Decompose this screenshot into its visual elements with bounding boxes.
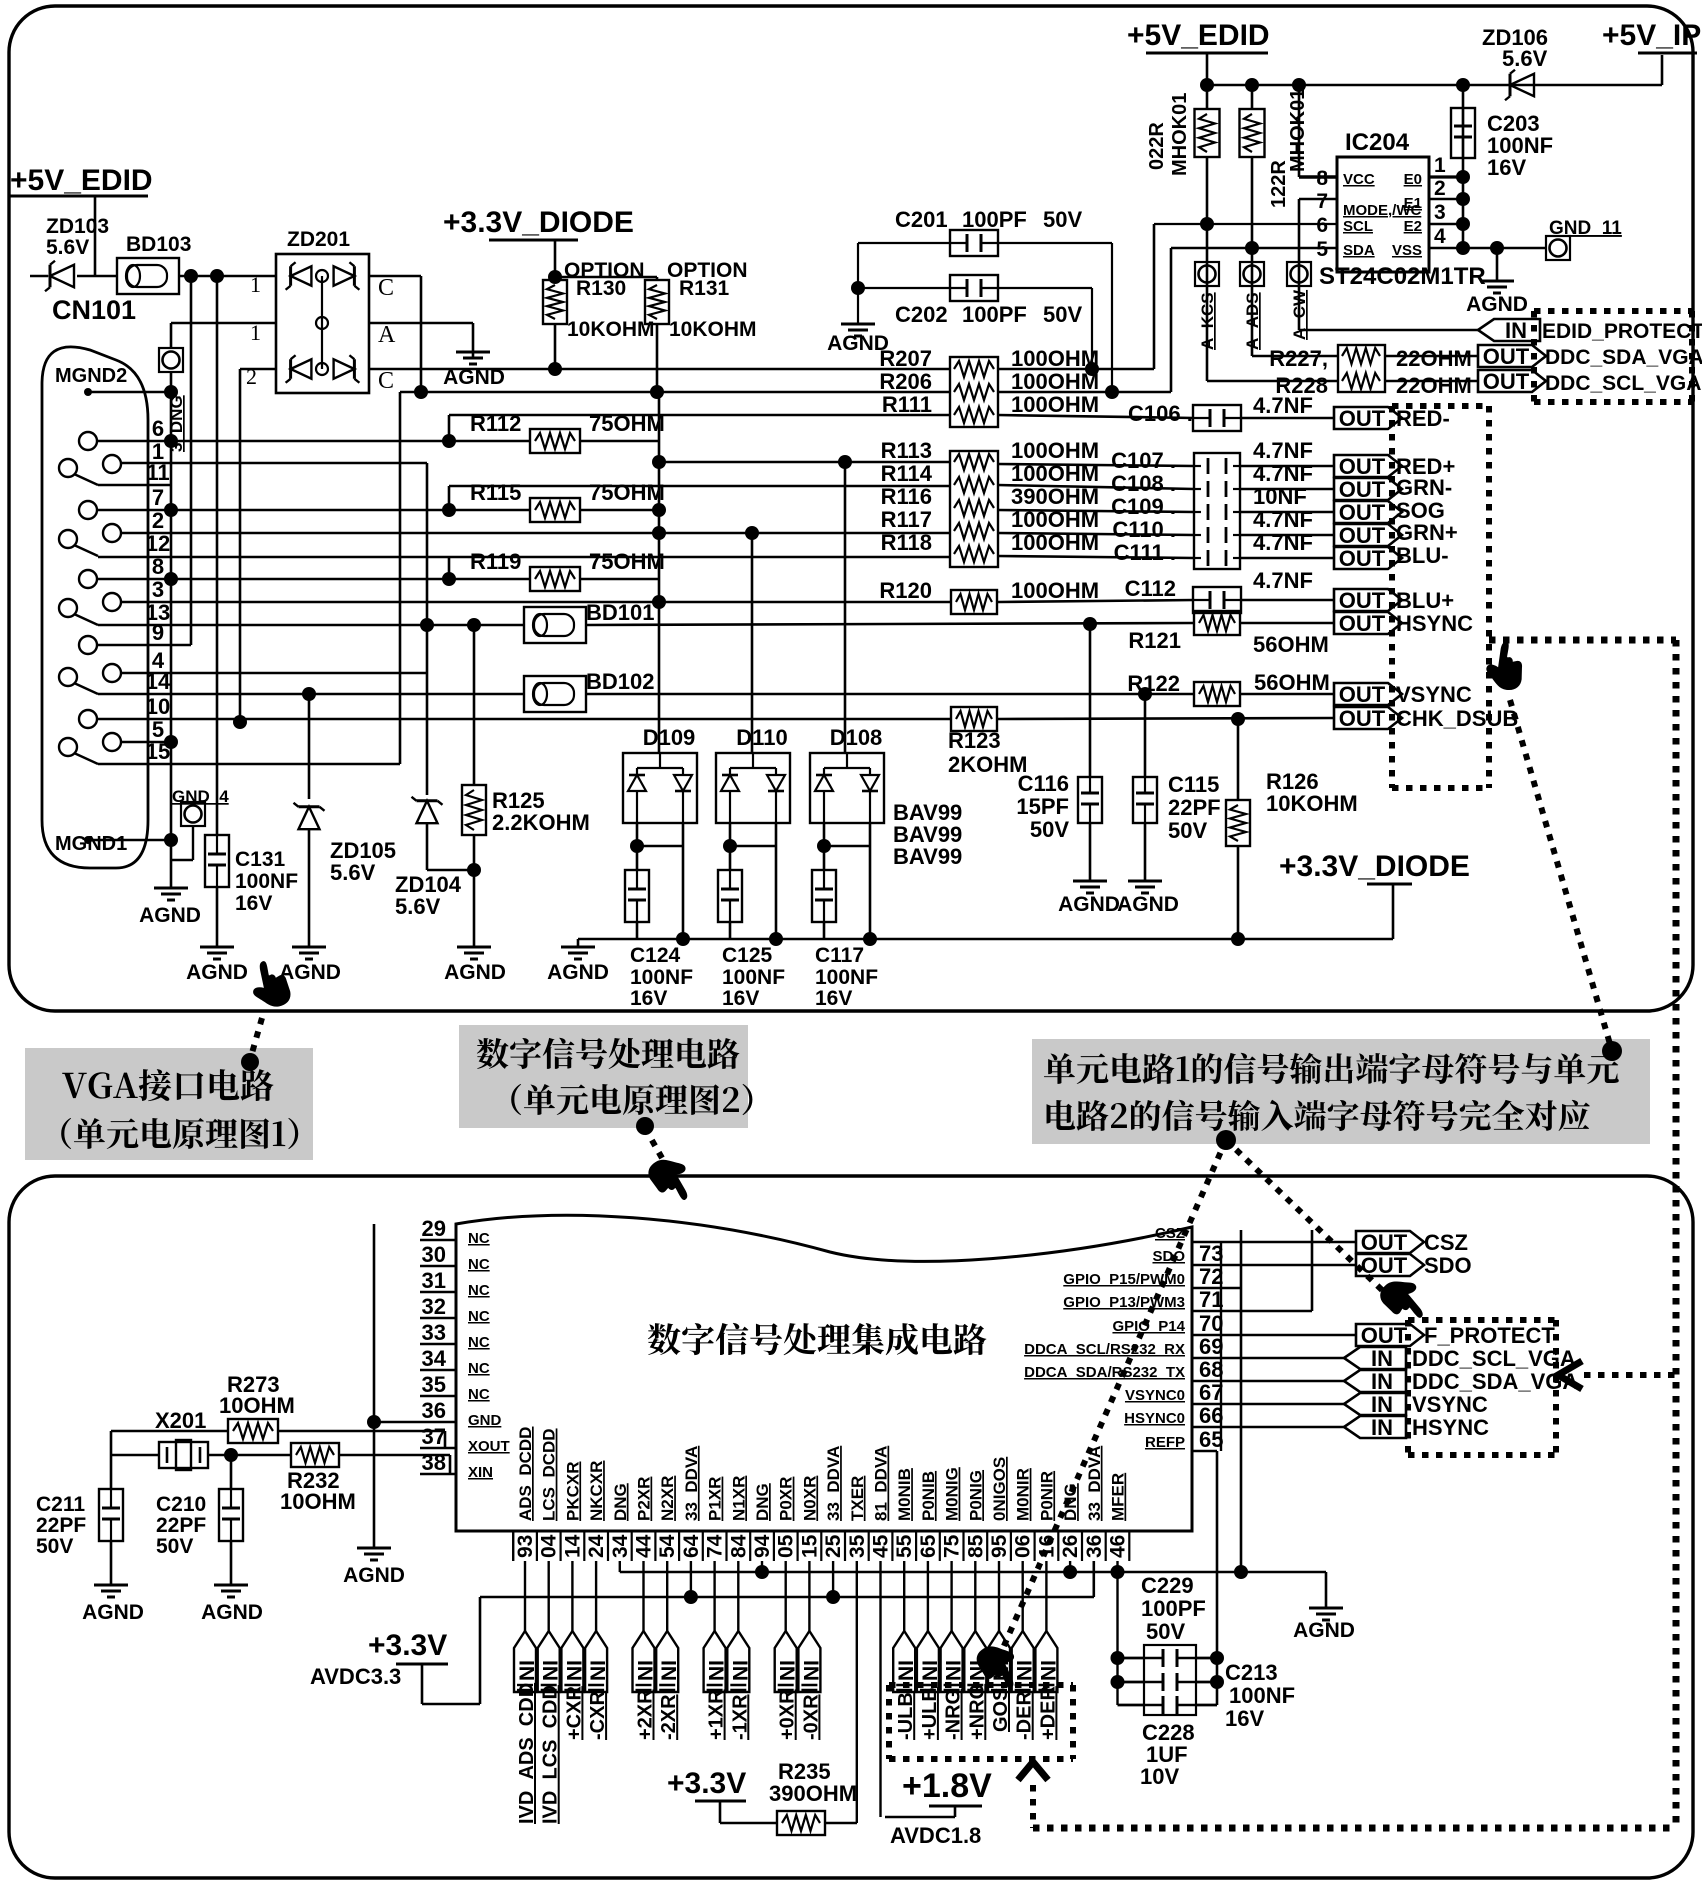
svg-text:10KOHM: 10KOHM <box>1266 791 1358 816</box>
svg-text:AGND: AGND <box>139 904 201 927</box>
svg-text:10OHM: 10OHM <box>280 1489 356 1514</box>
svg-text:+5V_EDID: +5V_EDID <box>10 164 153 197</box>
svg-text:OUT: OUT <box>1339 682 1386 707</box>
svg-text:DDC_SCL_VGA: DDC_SCL_VGA <box>1412 1346 1576 1371</box>
svg-text:DDCA_SDA/RS232_TX: DDCA_SDA/RS232_TX <box>1024 1364 1185 1381</box>
svg-text:C131: C131 <box>235 848 286 871</box>
svg-text:AGND: AGND <box>1058 893 1120 916</box>
svg-text:+1.8V: +1.8V <box>902 1767 992 1805</box>
svg-text:R130: R130 <box>576 277 626 300</box>
svg-text:NI: NI <box>658 1660 681 1681</box>
svg-text:HSYNC: HSYNC <box>1396 611 1473 636</box>
svg-text:+3.3V: +3.3V <box>667 1767 746 1800</box>
svg-text:+2XR: +2XR <box>635 1689 657 1740</box>
svg-text:75OHM: 75OHM <box>589 411 665 436</box>
svg-text:12: 12 <box>146 531 170 556</box>
svg-text:GPIO_P13/PWM3: GPIO_P13/PWM3 <box>1063 1294 1185 1311</box>
svg-text:GRN-: GRN- <box>1396 475 1452 500</box>
svg-text:IN: IN <box>1371 1415 1393 1440</box>
svg-text:50V: 50V <box>1168 818 1207 843</box>
svg-text:BD102: BD102 <box>586 669 654 694</box>
svg-text:F_PROTECT: F_PROTECT <box>1424 1323 1555 1348</box>
svg-text:56OHM: 56OHM <box>1254 670 1330 695</box>
svg-text:16V: 16V <box>1487 155 1526 180</box>
svg-text:-2XR: -2XR <box>658 1694 680 1740</box>
svg-text:C117: C117 <box>815 944 864 967</box>
svg-text:35: 35 <box>422 1372 446 1397</box>
svg-text:65: 65 <box>1199 1427 1223 1452</box>
svg-text:33: 33 <box>422 1320 446 1345</box>
svg-text:NI: NI <box>1014 1660 1037 1681</box>
svg-text:NI: NI <box>706 1660 729 1681</box>
svg-text:C125: C125 <box>722 944 773 967</box>
svg-text:NC: NC <box>468 1282 490 1299</box>
svg-text:P1XR: P1XR <box>706 1477 725 1521</box>
svg-text:74: 74 <box>704 1534 727 1558</box>
svg-text:CSZ: CSZ <box>1155 1225 1185 1242</box>
svg-text:94: 94 <box>751 1534 774 1558</box>
svg-text:7: 7 <box>1316 190 1328 213</box>
svg-text:N2XR: N2XR <box>658 1476 677 1521</box>
svg-text:93: 93 <box>514 1535 537 1558</box>
svg-text:C106 .: C106 . <box>1128 401 1193 426</box>
svg-text:+ULB: +ULB <box>919 1687 941 1740</box>
svg-text:16V: 16V <box>722 987 759 1010</box>
svg-text:C108 .: C108 . <box>1111 471 1176 496</box>
svg-text:GND_11: GND_11 <box>1549 218 1622 239</box>
svg-text:50V: 50V <box>36 1535 73 1558</box>
svg-text:+NRG: +NRG <box>966 1684 988 1740</box>
svg-text:OUT: OUT <box>1339 523 1386 548</box>
svg-text:AGND: AGND <box>547 961 609 984</box>
svg-text:34: 34 <box>422 1346 447 1371</box>
svg-text:75: 75 <box>941 1534 964 1558</box>
svg-text:C201: C201 <box>895 207 948 232</box>
svg-text:100PF: 100PF <box>1141 1596 1206 1621</box>
svg-text:-NRG: -NRG <box>943 1689 965 1740</box>
svg-text:45: 45 <box>870 1534 893 1558</box>
svg-text:C109 .: C109 . <box>1111 494 1176 519</box>
svg-text:PKCXR: PKCXR <box>563 1461 582 1521</box>
svg-text:5.6V: 5.6V <box>395 894 441 919</box>
svg-text:68: 68 <box>1199 1357 1223 1382</box>
svg-text:R123: R123 <box>948 728 1001 753</box>
svg-text:24: 24 <box>585 1534 608 1558</box>
svg-text:100OHM: 100OHM <box>1011 578 1099 603</box>
svg-text:22PF: 22PF <box>36 1514 86 1537</box>
svg-text:022R: 022R <box>1146 122 1168 170</box>
svg-text:36: 36 <box>1083 1535 1106 1558</box>
svg-text:100NF: 100NF <box>630 966 693 989</box>
svg-text:R112: R112 <box>470 411 521 436</box>
svg-text:R119: R119 <box>470 549 521 574</box>
svg-text:15PF: 15PF <box>1016 794 1069 819</box>
svg-text:1: 1 <box>1434 154 1446 177</box>
svg-text:R207: R207 <box>879 346 932 371</box>
svg-text:6: 6 <box>1316 214 1328 237</box>
svg-text:A_CW: A_CW <box>1290 289 1309 340</box>
svg-text:R131: R131 <box>679 277 730 300</box>
svg-text:X201: X201 <box>155 1408 206 1433</box>
svg-text:AGND: AGND <box>186 961 248 984</box>
svg-text:NKCXR: NKCXR <box>587 1461 606 1521</box>
svg-text:OUT: OUT <box>1483 344 1530 369</box>
svg-text:-CXR: -CXR <box>587 1691 609 1740</box>
svg-text:LCS_DCDD: LCS_DCDD <box>540 1428 559 1521</box>
svg-text:R117: R117 <box>881 507 932 532</box>
svg-text:C107 .: C107 . <box>1111 448 1176 473</box>
svg-text:26: 26 <box>1059 1535 1082 1558</box>
svg-text:CN101: CN101 <box>52 295 136 325</box>
svg-text:-ULB: -ULB <box>895 1692 917 1740</box>
svg-text:AVDC3.3: AVDC3.3 <box>310 1664 401 1689</box>
svg-text:100NF: 100NF <box>815 966 878 989</box>
svg-text:+0XR: +0XR <box>777 1689 799 1740</box>
svg-text:ST24C02M1TR: ST24C02M1TR <box>1319 263 1486 290</box>
svg-text:AGND: AGND <box>343 1564 405 1587</box>
svg-text:100NF: 100NF <box>722 966 785 989</box>
svg-text:16V: 16V <box>1225 1706 1264 1731</box>
svg-text:GRN+: GRN+ <box>1396 520 1458 545</box>
svg-text:10: 10 <box>146 694 170 719</box>
svg-text:MGND1: MGND1 <box>55 833 127 855</box>
svg-text:2KOHM: 2KOHM <box>948 752 1027 777</box>
svg-text:SCL: SCL <box>1343 218 1373 235</box>
svg-text:3: 3 <box>1434 201 1446 224</box>
svg-text:D110: D110 <box>736 725 787 750</box>
svg-text:NC: NC <box>468 1360 490 1377</box>
svg-text:C110 .: C110 . <box>1112 517 1176 542</box>
svg-text:10V: 10V <box>1140 1764 1179 1789</box>
svg-text:56OHM: 56OHM <box>1253 632 1329 657</box>
svg-text:-1XR: -1XR <box>729 1694 751 1740</box>
svg-text:73: 73 <box>1199 1241 1223 1266</box>
svg-text:10KOHM: 10KOHM <box>567 318 655 341</box>
svg-text:06: 06 <box>1012 1535 1035 1558</box>
svg-text:IN: IN <box>1371 1369 1393 1394</box>
svg-text:54: 54 <box>656 1534 679 1558</box>
svg-text:A: A <box>378 322 396 348</box>
svg-text:69: 69 <box>1199 1334 1223 1359</box>
svg-text:MHOK01: MHOK01 <box>1169 93 1191 176</box>
svg-text:OUT: OUT <box>1339 454 1386 479</box>
svg-text:10OHM: 10OHM <box>219 1393 295 1418</box>
svg-text:R121: R121 <box>1128 628 1181 653</box>
svg-text:75OHM: 75OHM <box>589 480 665 505</box>
svg-text:OUT: OUT <box>1339 406 1386 431</box>
svg-text:37: 37 <box>422 1424 446 1449</box>
svg-text:2.2KOHM: 2.2KOHM <box>492 810 590 835</box>
svg-text:85: 85 <box>964 1534 987 1558</box>
svg-text:OUT: OUT <box>1483 369 1530 394</box>
svg-text:VSYNC: VSYNC <box>1412 1392 1488 1417</box>
svg-text:46: 46 <box>1107 1535 1130 1558</box>
svg-text:2: 2 <box>152 508 164 533</box>
svg-text:C229: C229 <box>1141 1573 1194 1598</box>
svg-text:+3.3V_DIODE: +3.3V_DIODE <box>443 206 634 239</box>
svg-text:NI: NI <box>777 1660 800 1681</box>
svg-text:100PF: 100PF <box>962 302 1027 327</box>
svg-text:NI: NI <box>919 1660 942 1681</box>
svg-text:NI: NI <box>1037 1660 1060 1681</box>
svg-text:NI: NI <box>943 1660 966 1681</box>
svg-text:70: 70 <box>1199 1311 1223 1336</box>
svg-text:P2XR: P2XR <box>635 1477 654 1521</box>
svg-text:SDA: SDA <box>1343 242 1375 259</box>
svg-text:25: 25 <box>822 1534 845 1558</box>
svg-text:IVD_ADS_CDD: IVD_ADS_CDD <box>516 1683 538 1824</box>
svg-text:N1XR: N1XR <box>729 1476 748 1521</box>
svg-text:04: 04 <box>538 1534 561 1558</box>
svg-text:AGND: AGND <box>1117 893 1179 916</box>
svg-text:5.6V: 5.6V <box>46 236 89 259</box>
svg-text:GPIO_P14: GPIO_P14 <box>1112 1318 1185 1335</box>
svg-text:8: 8 <box>1316 167 1328 190</box>
svg-text:M0NIR: M0NIR <box>1014 1468 1033 1521</box>
svg-text:+5V_EDID: +5V_EDID <box>1127 19 1270 52</box>
svg-text:IN: IN <box>1371 1346 1393 1371</box>
svg-text:4.7NF: 4.7NF <box>1253 568 1313 593</box>
svg-text:100NF: 100NF <box>1229 1683 1295 1708</box>
svg-text:44: 44 <box>633 1534 656 1558</box>
svg-text:DDC_SDA_VGA: DDC_SDA_VGA <box>1545 346 1702 369</box>
svg-text:OUT: OUT <box>1339 706 1386 731</box>
svg-text:50V: 50V <box>1146 1619 1185 1644</box>
svg-text:95: 95 <box>988 1534 1011 1558</box>
svg-text:10NF: 10NF <box>1253 484 1307 509</box>
svg-text:72: 72 <box>1199 1264 1223 1289</box>
svg-text:16V: 16V <box>235 892 272 915</box>
svg-text:OUT: OUT <box>1361 1230 1408 1255</box>
svg-text:SDO: SDO <box>1424 1253 1472 1278</box>
svg-text:AGND: AGND <box>1466 293 1528 316</box>
svg-text:R114: R114 <box>881 461 933 486</box>
svg-text:R118: R118 <box>881 530 932 555</box>
svg-text:1: 1 <box>250 272 261 297</box>
svg-text:5.6V: 5.6V <box>1502 46 1548 71</box>
svg-text:16V: 16V <box>815 987 852 1010</box>
svg-text:AGND: AGND <box>444 961 506 984</box>
svg-text:NI: NI <box>587 1660 610 1681</box>
svg-text:OUT: OUT <box>1339 500 1386 525</box>
svg-text:4.7NF: 4.7NF <box>1253 530 1313 555</box>
svg-text:DDCA_SCL/RS232_RX: DDCA_SCL/RS232_RX <box>1024 1341 1185 1358</box>
svg-text:22OHM: 22OHM <box>1396 346 1472 371</box>
svg-text:+CXR: +CXR <box>563 1686 585 1740</box>
svg-text:67: 67 <box>1199 1380 1223 1405</box>
svg-text:AGND: AGND <box>279 961 341 984</box>
svg-text:C213: C213 <box>1225 1660 1278 1685</box>
svg-text:4.7NF: 4.7NF <box>1253 507 1313 532</box>
svg-text:BLU+: BLU+ <box>1396 588 1454 613</box>
svg-text:OUT: OUT <box>1361 1253 1408 1278</box>
svg-text:BD101: BD101 <box>586 600 654 625</box>
svg-text:29: 29 <box>422 1216 446 1241</box>
svg-text:65: 65 <box>917 1534 940 1558</box>
svg-text:REFP: REFP <box>1145 1434 1185 1451</box>
svg-text:C210: C210 <box>156 1493 206 1516</box>
svg-text:22PF: 22PF <box>156 1514 206 1537</box>
svg-text:P0NIR: P0NIR <box>1037 1471 1056 1521</box>
svg-text:C211: C211 <box>36 1493 85 1516</box>
svg-text:DNG: DNG <box>611 1483 630 1521</box>
svg-text:P0XR: P0XR <box>777 1477 796 1521</box>
svg-text:C: C <box>378 368 394 394</box>
svg-text:2: 2 <box>1434 177 1446 200</box>
svg-text:AGND: AGND <box>82 1601 144 1624</box>
svg-text:BLU-: BLU- <box>1396 543 1449 568</box>
svg-text:100OHM: 100OHM <box>1011 346 1099 371</box>
svg-text:C115: C115 <box>1168 772 1219 797</box>
svg-text:CHK_DSUB: CHK_DSUB <box>1396 706 1518 731</box>
svg-text:OUT: OUT <box>1339 611 1386 636</box>
svg-text:C116: C116 <box>1018 771 1069 796</box>
svg-text:50V: 50V <box>1043 302 1082 327</box>
svg-text:HSYNC: HSYNC <box>1412 1415 1489 1440</box>
svg-text:R206: R206 <box>879 369 932 394</box>
svg-text:CSZ: CSZ <box>1424 1230 1468 1255</box>
svg-text:30: 30 <box>422 1242 446 1267</box>
svg-text:14: 14 <box>561 1534 584 1558</box>
svg-text:75OHM: 75OHM <box>589 549 665 574</box>
svg-text:C112: C112 <box>1125 576 1176 601</box>
svg-text:M0NIG: M0NIG <box>943 1467 962 1521</box>
svg-text:VSYNC: VSYNC <box>1396 682 1472 707</box>
svg-text:05: 05 <box>775 1534 798 1558</box>
svg-text:6: 6 <box>152 416 164 441</box>
svg-text:3: 3 <box>152 577 164 602</box>
svg-text:BAV99: BAV99 <box>893 844 962 869</box>
svg-text:33_DDVA: 33_DDVA <box>682 1446 701 1521</box>
svg-text:C111 .: C111 . <box>1114 540 1176 565</box>
svg-text:VCC: VCC <box>1343 171 1375 188</box>
svg-text:33_DDVA: 33_DDVA <box>1085 1446 1104 1521</box>
svg-text:N0XR: N0XR <box>800 1476 819 1521</box>
svg-text:31: 31 <box>422 1268 446 1293</box>
svg-text:IC204: IC204 <box>1345 129 1410 156</box>
svg-text:GND: GND <box>468 1412 502 1429</box>
svg-text:34: 34 <box>609 1534 632 1558</box>
svg-text:AGND: AGND <box>1293 1619 1355 1642</box>
svg-text:OUT: OUT <box>1339 588 1386 613</box>
svg-text:-DER: -DER <box>1014 1691 1036 1740</box>
svg-text:10KOHM: 10KOHM <box>669 318 757 341</box>
svg-text:P0NIB: P0NIB <box>919 1471 938 1521</box>
svg-text:NI: NI <box>635 1660 658 1681</box>
svg-text:16V: 16V <box>630 987 667 1010</box>
svg-text:0NIGOS: 0NIGOS <box>990 1457 1009 1521</box>
svg-text:OUT: OUT <box>1361 1323 1408 1348</box>
svg-text:E0: E0 <box>1404 171 1422 188</box>
svg-text:NC: NC <box>468 1308 490 1325</box>
svg-text:C: C <box>378 275 394 301</box>
svg-text:E1: E1 <box>1404 195 1422 212</box>
svg-text:NI: NI <box>563 1660 586 1681</box>
svg-text:NI: NI <box>990 1660 1013 1681</box>
svg-text:100NF: 100NF <box>235 870 298 893</box>
svg-text:TXER: TXER <box>848 1476 867 1521</box>
svg-text:NI: NI <box>516 1660 539 1681</box>
svg-text:36: 36 <box>422 1398 446 1423</box>
svg-text:DNG: DNG <box>1061 1483 1080 1521</box>
svg-text:NC: NC <box>468 1334 490 1351</box>
svg-text:ZD201: ZD201 <box>287 228 350 251</box>
svg-text:NI: NI <box>895 1660 918 1681</box>
svg-text:OUT: OUT <box>1339 546 1386 571</box>
svg-text:R113: R113 <box>881 438 932 463</box>
svg-text:16: 16 <box>1035 1535 1058 1558</box>
svg-text:15: 15 <box>798 1534 821 1558</box>
svg-text:55: 55 <box>893 1534 916 1558</box>
svg-text:R122: R122 <box>1127 671 1180 696</box>
svg-text:MFER: MFER <box>1109 1473 1128 1521</box>
svg-text:NI: NI <box>729 1660 752 1681</box>
svg-text:R120: R120 <box>879 578 932 603</box>
svg-text:50V: 50V <box>1043 207 1082 232</box>
svg-text:MGND2: MGND2 <box>55 365 127 387</box>
svg-text:HSYNC0: HSYNC0 <box>1124 1410 1185 1427</box>
svg-text:71: 71 <box>1199 1287 1223 1312</box>
svg-text:22PF: 22PF <box>1168 795 1221 820</box>
svg-text:ADS_DCDD: ADS_DCDD <box>516 1427 535 1521</box>
svg-text:NC: NC <box>468 1386 490 1403</box>
svg-text:100OHM: 100OHM <box>1011 392 1099 417</box>
svg-text:81_DDVA: 81_DDVA <box>872 1446 891 1521</box>
svg-text:NI: NI <box>800 1660 823 1681</box>
svg-text:5: 5 <box>1316 238 1328 261</box>
svg-text:RED-: RED- <box>1396 406 1450 431</box>
svg-text:XOUT: XOUT <box>468 1438 510 1455</box>
svg-text:84: 84 <box>727 1534 750 1558</box>
svg-text:100OHM: 100OHM <box>1011 438 1099 463</box>
svg-text:66: 66 <box>1199 1403 1223 1428</box>
svg-text:P0NIG: P0NIG <box>966 1470 985 1521</box>
svg-text:GPIO_P15/PWM0: GPIO_P15/PWM0 <box>1063 1271 1185 1288</box>
svg-text:100OHM: 100OHM <box>1011 369 1099 394</box>
svg-text:GND_4: GND_4 <box>172 787 229 806</box>
svg-text:NI: NI <box>966 1660 989 1681</box>
svg-text:D109: D109 <box>643 725 696 750</box>
svg-text:+5V_IP: +5V_IP <box>1602 19 1701 52</box>
svg-text:4.7NF: 4.7NF <box>1253 461 1313 486</box>
svg-text:4.7NF: 4.7NF <box>1253 438 1313 463</box>
svg-text:AVDC1.8: AVDC1.8 <box>890 1823 981 1848</box>
svg-text:VSS: VSS <box>1392 242 1422 259</box>
svg-text:AGND: AGND <box>201 1601 263 1624</box>
svg-text:IN: IN <box>1371 1392 1393 1417</box>
svg-text:+3.3V: +3.3V <box>368 1629 447 1662</box>
svg-text:NC: NC <box>468 1256 490 1273</box>
svg-text:C202: C202 <box>895 302 948 327</box>
svg-text:-0XR: -0XR <box>800 1694 822 1740</box>
svg-text:5.6V: 5.6V <box>330 860 376 885</box>
svg-text:M0NIB: M0NIB <box>895 1468 914 1521</box>
svg-text:100PF: 100PF <box>962 207 1027 232</box>
svg-text:XIN: XIN <box>468 1464 493 1481</box>
svg-text:R227,: R227, <box>1269 346 1328 371</box>
svg-text:DDC_SCL_VGA: DDC_SCL_VGA <box>1545 372 1701 395</box>
svg-text:D108: D108 <box>830 725 883 750</box>
svg-text:R111: R111 <box>882 392 932 417</box>
svg-text:+1XR: +1XR <box>706 1689 728 1740</box>
svg-text:OUT: OUT <box>1339 477 1386 502</box>
svg-text:VSYNC0: VSYNC0 <box>1125 1387 1185 1404</box>
svg-text:GOS: GOS <box>990 1688 1012 1732</box>
svg-text:IN: IN <box>1505 318 1527 343</box>
svg-text:EDID_PROTECT: EDID_PROTECT <box>1542 320 1702 343</box>
svg-text:22OHM: 22OHM <box>1396 373 1472 398</box>
svg-text:7: 7 <box>152 485 164 510</box>
